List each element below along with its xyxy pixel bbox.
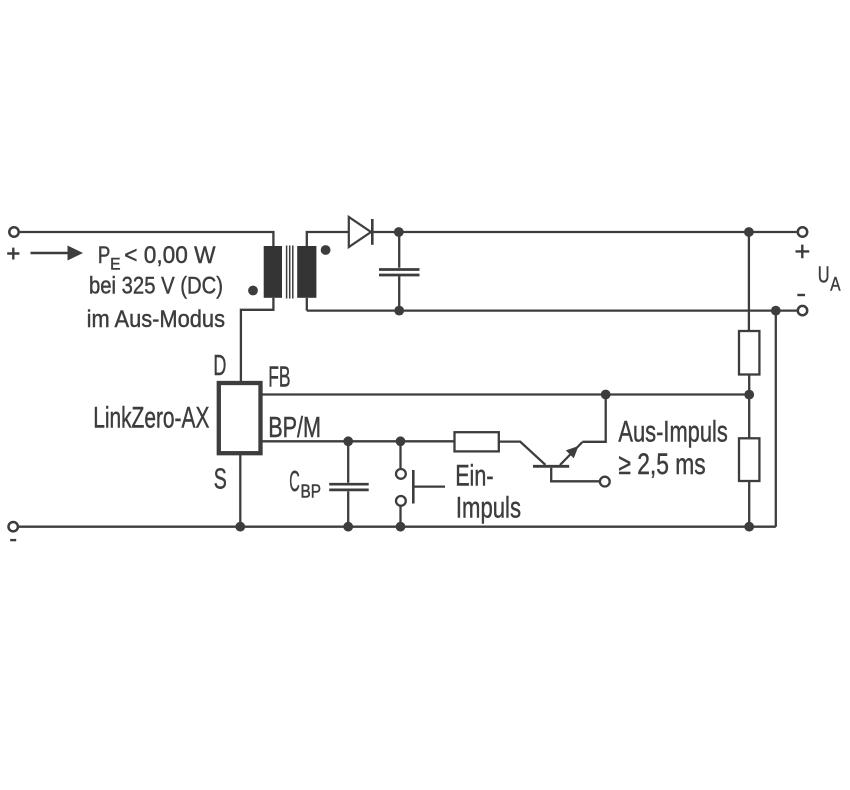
svg-text:E: E (110, 255, 120, 274)
svg-text:C: C (289, 466, 300, 498)
junction dot bottom rail minus (771, 306, 781, 316)
junction dot CBP bottom (343, 522, 353, 532)
svg-text:Aus-Impuls: Aus-Impuls (618, 415, 727, 448)
svg-text:U: U (818, 262, 830, 288)
label Ein-Impuls (455, 460, 521, 525)
resistor R1 (739, 331, 759, 375)
FB wire (261, 393, 749, 395)
svg-text:S: S (214, 463, 227, 495)
junction dot FB collector (601, 390, 611, 400)
wire between resistors (748, 375, 750, 439)
svg-text:Ein-: Ein- (455, 460, 493, 493)
wire source to bottom rail (239, 453, 241, 527)
capacitor C1 (379, 232, 420, 311)
junction dot source (235, 522, 245, 532)
transformer T1 (248, 245, 330, 298)
svg-text:P: P (98, 242, 110, 269)
svg-text:BP/M: BP/M (268, 412, 321, 444)
resistor R2 (739, 438, 759, 481)
wire minus output down (775, 311, 777, 527)
svg-text:Impuls: Impuls (456, 492, 521, 525)
wire secondary top (307, 232, 349, 311)
svg-text:LinkZero-AX: LinkZero-AX (93, 401, 209, 434)
resistor R3 base (455, 432, 499, 451)
wire collector to FB (582, 395, 605, 442)
wire secondary bottom rail (307, 309, 798, 311)
junction dot above C1 (394, 227, 404, 237)
svg-text:bei 325 V (DC): bei 325 V (DC) (89, 273, 223, 300)
wire right branch down (748, 232, 750, 331)
pushbutton S1 (396, 441, 445, 526)
diode D1 (349, 217, 373, 247)
wire top left rail (19, 232, 274, 246)
svg-text:D: D (213, 350, 226, 382)
junction dot switch bottom (396, 522, 406, 532)
IC U1 LinkZero-AX (219, 383, 261, 453)
transistor Q1 (533, 442, 610, 487)
junction dot C1 bottom (394, 306, 404, 316)
label UA (818, 262, 841, 296)
junction dot top rail right (744, 227, 754, 237)
input plus terminal (7, 227, 19, 259)
wire primary bottom to IC drain (241, 298, 274, 381)
wire R2 to bottom rail (748, 481, 750, 527)
bottom rail wire (18, 526, 776, 528)
svg-text:FB: FB (268, 361, 290, 393)
wire top rail right (372, 231, 797, 233)
svg-text:A: A (830, 275, 841, 296)
BP/M wire (261, 440, 455, 442)
svg-text:< 0,00 W: < 0,00 W (124, 242, 216, 269)
capacitor CBP (329, 441, 369, 526)
junction dot R2 bottom (744, 522, 754, 532)
arrow (31, 246, 84, 261)
label Aus-Impuls (618, 415, 727, 481)
wire R3 to base (499, 442, 546, 465)
svg-text:≥ 2,5 ms: ≥ 2,5 ms (618, 448, 705, 481)
note text PE < 0,00 W bei 325 V (DC) im Aus-Modus (87, 242, 225, 333)
junction dot CBP top (343, 436, 353, 446)
junction dot switch top (396, 436, 406, 446)
output plus terminal (796, 227, 810, 258)
output minus terminal (797, 295, 807, 315)
svg-text:im Aus-Modus: im Aus-Modus (87, 306, 225, 333)
input minus terminal (9, 522, 18, 540)
label CBP (289, 466, 321, 502)
svg-text:BP: BP (301, 482, 322, 502)
junction dot FB divider (744, 390, 754, 400)
